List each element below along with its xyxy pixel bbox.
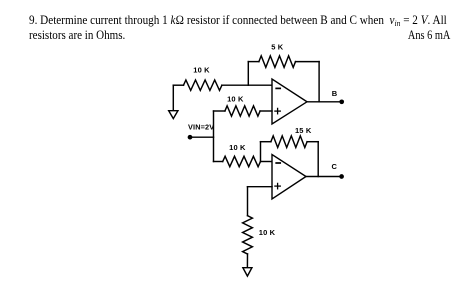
- wire: U2 feedback left vertical: [260, 142, 262, 162]
- svg-text:B: B: [332, 89, 338, 98]
- op-amp U1 (top): [272, 79, 307, 124]
- op-amp U2 (bottom): [272, 155, 306, 200]
- wire: bus to resistor R2: [214, 110, 225, 112]
- wire: U2 feedback right vertical down to output: [317, 142, 319, 177]
- resistor R5 15K (U2 feedback): [271, 136, 307, 148]
- U2 non-inverting pin label +: [275, 183, 280, 188]
- wire: VIN vertical bus: [213, 111, 215, 162]
- ground G1 (top-left): [169, 85, 178, 118]
- U1 inverting pin label -: [276, 87, 280, 89]
- answer note: [407, 29, 450, 43]
- svg-text:10 K: 10 K: [227, 95, 244, 104]
- wire: U2 feedback left stub: [261, 141, 271, 143]
- svg-text:5 K: 5 K: [271, 43, 284, 52]
- wire: feedback left stub: [248, 61, 259, 63]
- node C dot: [339, 174, 344, 179]
- svg-text:10 K: 10 K: [193, 65, 210, 74]
- node B dot: [339, 99, 344, 104]
- ground G2 (bottom): [243, 268, 252, 276]
- wire: R2 to U1 non-inverting input: [260, 110, 272, 112]
- resistor R2 10K (to U1 non-inverting input): [225, 106, 260, 116]
- U2 inverting pin label -: [276, 162, 280, 164]
- wire: R1 to U1 inverting input (node with 5K feedback): [222, 84, 272, 86]
- problem statement line 2: [29, 29, 125, 43]
- svg-text:15 K: 15 K: [295, 126, 312, 135]
- wire: ground G1 to resistor R1: [173, 84, 183, 86]
- wire: down to resistor R6: [247, 187, 249, 216]
- resistor R6 10K (vertical to ground): [243, 216, 253, 254]
- problem statement line 1: [29, 14, 447, 29]
- wire: R6 to ground G2: [246, 254, 248, 268]
- wire: U2 non-inverting input left: [248, 186, 273, 188]
- wire: R4 to U2 inverting input: [261, 161, 273, 163]
- U1 non-inverting pin label +: [275, 108, 280, 113]
- resistor R3 5K (U1 feedback): [259, 56, 296, 68]
- svg-text:10 K: 10 K: [259, 228, 276, 237]
- wire: feedback right vertical down to U1 output: [318, 62, 320, 102]
- resistor R4 10K (to U2 inverting input): [223, 156, 261, 166]
- wire: feedback right stub: [296, 61, 320, 63]
- wire: U2 feedback right stub: [307, 141, 318, 143]
- wire: VIN node to vertical bus: [190, 136, 214, 138]
- svg-text:C: C: [332, 162, 338, 171]
- wire: bus to resistor R4: [214, 161, 223, 163]
- wire: U1 output to node B: [307, 101, 342, 103]
- svg-text:10 K: 10 K: [229, 143, 246, 152]
- resistor R1 10K (to U1 inverting input): [184, 80, 222, 90]
- svg-text:VIN=2V: VIN=2V: [188, 123, 214, 132]
- wire: feedback left vertical up from inverting node: [247, 62, 249, 86]
- node VIN dot: [188, 135, 193, 140]
- wire: U2 output to node C: [306, 176, 342, 178]
